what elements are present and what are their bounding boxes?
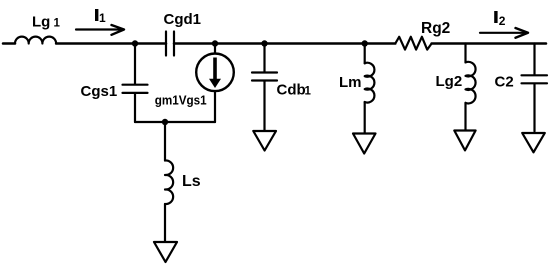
svg-text:Cgd1: Cgd1: [164, 11, 202, 28]
svg-text:Ls: Ls: [182, 173, 201, 190]
svg-text:1: 1: [99, 11, 106, 25]
svg-text:Cdb: Cdb: [277, 82, 306, 99]
svg-text:gm1Vgs1: gm1Vgs1: [155, 93, 207, 108]
svg-text:Lg: Lg: [32, 14, 50, 31]
svg-text:Lm: Lm: [339, 74, 362, 91]
svg-text:1: 1: [305, 86, 312, 98]
svg-text:Rg2: Rg2: [421, 20, 450, 37]
svg-text:Lg2: Lg2: [436, 73, 463, 90]
svg-text:Cgs1: Cgs1: [81, 83, 118, 100]
svg-text:C2: C2: [495, 74, 514, 91]
svg-text:2: 2: [499, 14, 506, 28]
svg-text:1: 1: [54, 18, 61, 30]
